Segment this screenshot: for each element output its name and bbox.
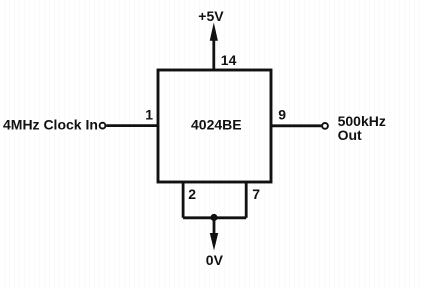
0V ground arrow bbox=[210, 233, 218, 251]
svg-text:4MHz Clock In: 4MHz Clock In bbox=[3, 116, 98, 132]
IC U1 4024BE body bbox=[158, 70, 271, 182]
svg-text:14: 14 bbox=[221, 52, 237, 68]
wire pin 7 (down lead) bbox=[245, 182, 248, 218]
svg-text:9: 9 bbox=[278, 107, 286, 123]
wire pin 9 (output lead) bbox=[271, 124, 321, 127]
svg-text:4024BE: 4024BE bbox=[191, 117, 242, 133]
wire ground bus (joins pins 2 and 7) bbox=[183, 216, 246, 219]
svg-text:0V: 0V bbox=[206, 252, 224, 268]
+5V supply arrow bbox=[210, 23, 218, 41]
node: clock input terminal bbox=[100, 123, 106, 129]
svg-text:2: 2 bbox=[188, 186, 196, 202]
svg-text:1: 1 bbox=[145, 106, 153, 122]
svg-text:7: 7 bbox=[252, 186, 260, 202]
wire to 0V bbox=[213, 218, 216, 235]
node: output terminal bbox=[322, 123, 328, 129]
wire pin 1 (clock input lead) bbox=[106, 124, 158, 127]
junction dot bbox=[210, 214, 217, 221]
wire pin 2 (down lead) bbox=[182, 182, 185, 218]
wire pin 14 (Vdd lead) bbox=[212, 38, 215, 70]
svg-text:+5V: +5V bbox=[198, 8, 224, 24]
svg-text:Out: Out bbox=[338, 127, 362, 143]
